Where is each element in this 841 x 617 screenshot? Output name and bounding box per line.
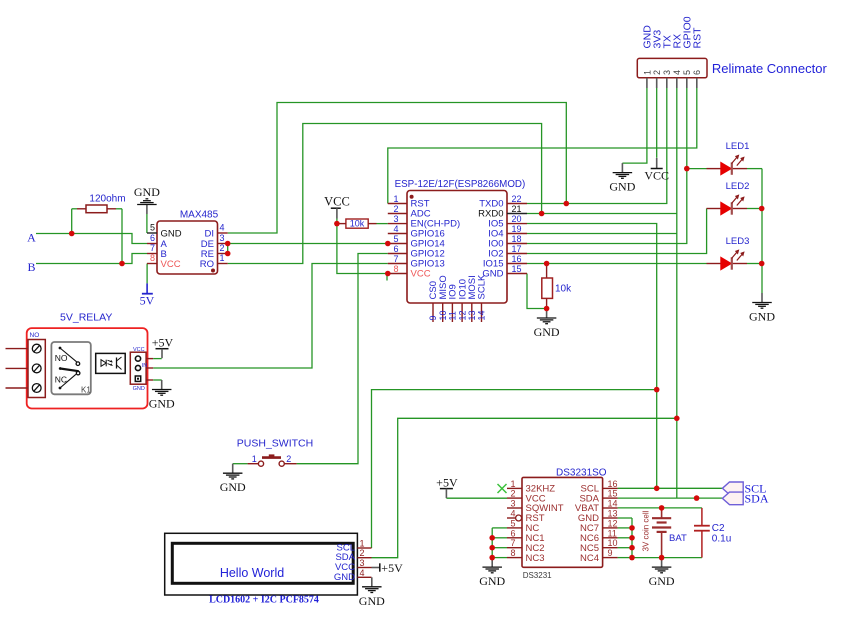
svg-text:12: 12 (457, 310, 467, 320)
svg-text:9: 9 (428, 315, 438, 320)
svg-text:8: 8 (393, 264, 398, 274)
svg-text:120ohm: 120ohm (89, 194, 125, 205)
svg-text:16: 16 (512, 254, 522, 264)
svg-text:VCC: VCC (324, 195, 350, 209)
svg-text:3: 3 (393, 214, 398, 224)
svg-text:B: B (27, 260, 35, 274)
svg-text:1: 1 (220, 253, 225, 263)
svg-text:NC: NC (55, 375, 67, 385)
svg-text:1: 1 (360, 539, 365, 549)
svg-text:1: 1 (393, 194, 398, 204)
svg-text:SDA: SDA (745, 492, 769, 506)
svg-text:6: 6 (692, 70, 702, 75)
svg-text:GND: GND (649, 574, 675, 588)
svg-text:GND: GND (161, 229, 182, 240)
svg-text:3V coin cell: 3V coin cell (642, 510, 651, 551)
svg-text:11: 11 (608, 528, 617, 538)
svg-text:LED1: LED1 (726, 141, 750, 152)
svg-text:GND: GND (749, 310, 775, 324)
svg-text:+5V: +5V (381, 561, 403, 575)
svg-text:VCC: VCC (133, 347, 145, 353)
svg-text:2: 2 (510, 489, 515, 499)
svg-text:10: 10 (438, 310, 448, 320)
svg-text:LED3: LED3 (726, 236, 750, 247)
svg-text:3: 3 (360, 558, 365, 568)
svg-text:11: 11 (448, 311, 458, 320)
svg-text:7: 7 (510, 538, 515, 548)
svg-text:6: 6 (393, 244, 398, 254)
svg-text:GND: GND (220, 480, 246, 494)
svg-text:ESP-12E/12F(ESP8266MOD): ESP-12E/12F(ESP8266MOD) (395, 179, 526, 190)
svg-text:SCLK: SCLK (477, 274, 488, 299)
svg-text:14: 14 (477, 310, 487, 320)
svg-text:GND: GND (134, 185, 160, 199)
svg-text:2: 2 (652, 70, 662, 75)
svg-text:3: 3 (220, 233, 225, 243)
svg-text:2: 2 (360, 548, 365, 558)
svg-text:22: 22 (512, 194, 522, 204)
svg-text:10k: 10k (555, 284, 572, 295)
svg-text:BAT: BAT (669, 533, 687, 544)
svg-text:+5V: +5V (436, 476, 458, 490)
svg-text:12: 12 (608, 518, 618, 528)
svg-text:GND: GND (334, 572, 355, 583)
svg-text:5V_RELAY: 5V_RELAY (60, 312, 112, 324)
svg-text:DS3231: DS3231 (523, 571, 552, 580)
svg-text:8: 8 (150, 253, 155, 263)
svg-text:5: 5 (150, 223, 155, 233)
svg-text:13: 13 (467, 310, 477, 320)
svg-text:K1: K1 (81, 386, 91, 395)
svg-text:LED2: LED2 (726, 181, 750, 192)
svg-text:1: 1 (642, 70, 652, 75)
svg-text:DI: DI (205, 229, 215, 240)
svg-text:10: 10 (608, 538, 618, 548)
svg-text:14: 14 (608, 499, 618, 509)
svg-text:10k: 10k (350, 219, 365, 229)
svg-text:Relimate Connector: Relimate Connector (712, 61, 828, 76)
svg-text:0.1u: 0.1u (712, 534, 731, 545)
svg-text:NO: NO (55, 353, 68, 363)
svg-text:5V: 5V (140, 294, 155, 308)
svg-text:RO: RO (200, 259, 214, 270)
svg-text:C2: C2 (712, 523, 725, 534)
svg-text:VCC: VCC (411, 269, 431, 280)
svg-text:PUSH_SWITCH: PUSH_SWITCH (237, 438, 313, 450)
svg-text:13: 13 (608, 509, 618, 519)
svg-text:5: 5 (682, 70, 692, 75)
svg-text:GND: GND (534, 325, 560, 339)
svg-text:RST: RST (692, 27, 704, 49)
svg-text:20: 20 (512, 214, 522, 224)
svg-text:2: 2 (220, 243, 225, 253)
svg-text:7: 7 (393, 254, 398, 264)
svg-text:MAX485: MAX485 (180, 210, 219, 221)
svg-text:6: 6 (150, 233, 155, 243)
svg-text:7: 7 (150, 243, 155, 253)
svg-text:15: 15 (512, 264, 522, 274)
svg-text:21: 21 (512, 204, 522, 214)
svg-text:4: 4 (393, 224, 398, 234)
svg-text:NC3: NC3 (526, 553, 545, 564)
svg-text:NO: NO (30, 332, 40, 339)
svg-text:+5V: +5V (152, 336, 174, 350)
svg-text:2: 2 (393, 204, 398, 214)
svg-text:A: A (27, 231, 36, 245)
svg-text:3: 3 (510, 499, 515, 509)
svg-text:4: 4 (672, 70, 682, 75)
svg-text:6: 6 (510, 528, 515, 538)
svg-text:17: 17 (512, 244, 522, 254)
svg-text:GND: GND (149, 397, 175, 411)
svg-text:2: 2 (286, 454, 291, 464)
svg-text:GND: GND (609, 180, 635, 194)
svg-text:NC4: NC4 (580, 553, 599, 564)
svg-text:4: 4 (510, 509, 515, 519)
svg-text:16: 16 (608, 479, 618, 489)
svg-text:DS3231SO: DS3231SO (556, 468, 607, 479)
svg-text:18: 18 (512, 234, 522, 244)
svg-text:4: 4 (360, 568, 365, 578)
svg-text:GND: GND (479, 574, 505, 588)
svg-text:5: 5 (393, 234, 398, 244)
svg-text:GND: GND (359, 594, 385, 608)
svg-text:1: 1 (252, 454, 257, 464)
svg-text:VCC: VCC (644, 169, 669, 183)
svg-text:LCD1602 + I2C PCF8574: LCD1602 + I2C PCF8574 (209, 595, 319, 606)
svg-text:15: 15 (608, 489, 618, 499)
svg-text:1: 1 (510, 479, 515, 489)
svg-text:Hello World: Hello World (220, 566, 284, 580)
svg-text:8: 8 (510, 548, 515, 558)
svg-text:3: 3 (662, 70, 672, 75)
svg-text:5: 5 (510, 518, 515, 528)
svg-text:GND: GND (133, 386, 145, 392)
svg-text:4: 4 (220, 223, 225, 233)
svg-text:VCC: VCC (161, 259, 181, 270)
svg-text:9: 9 (608, 548, 613, 558)
svg-text:19: 19 (512, 224, 522, 234)
